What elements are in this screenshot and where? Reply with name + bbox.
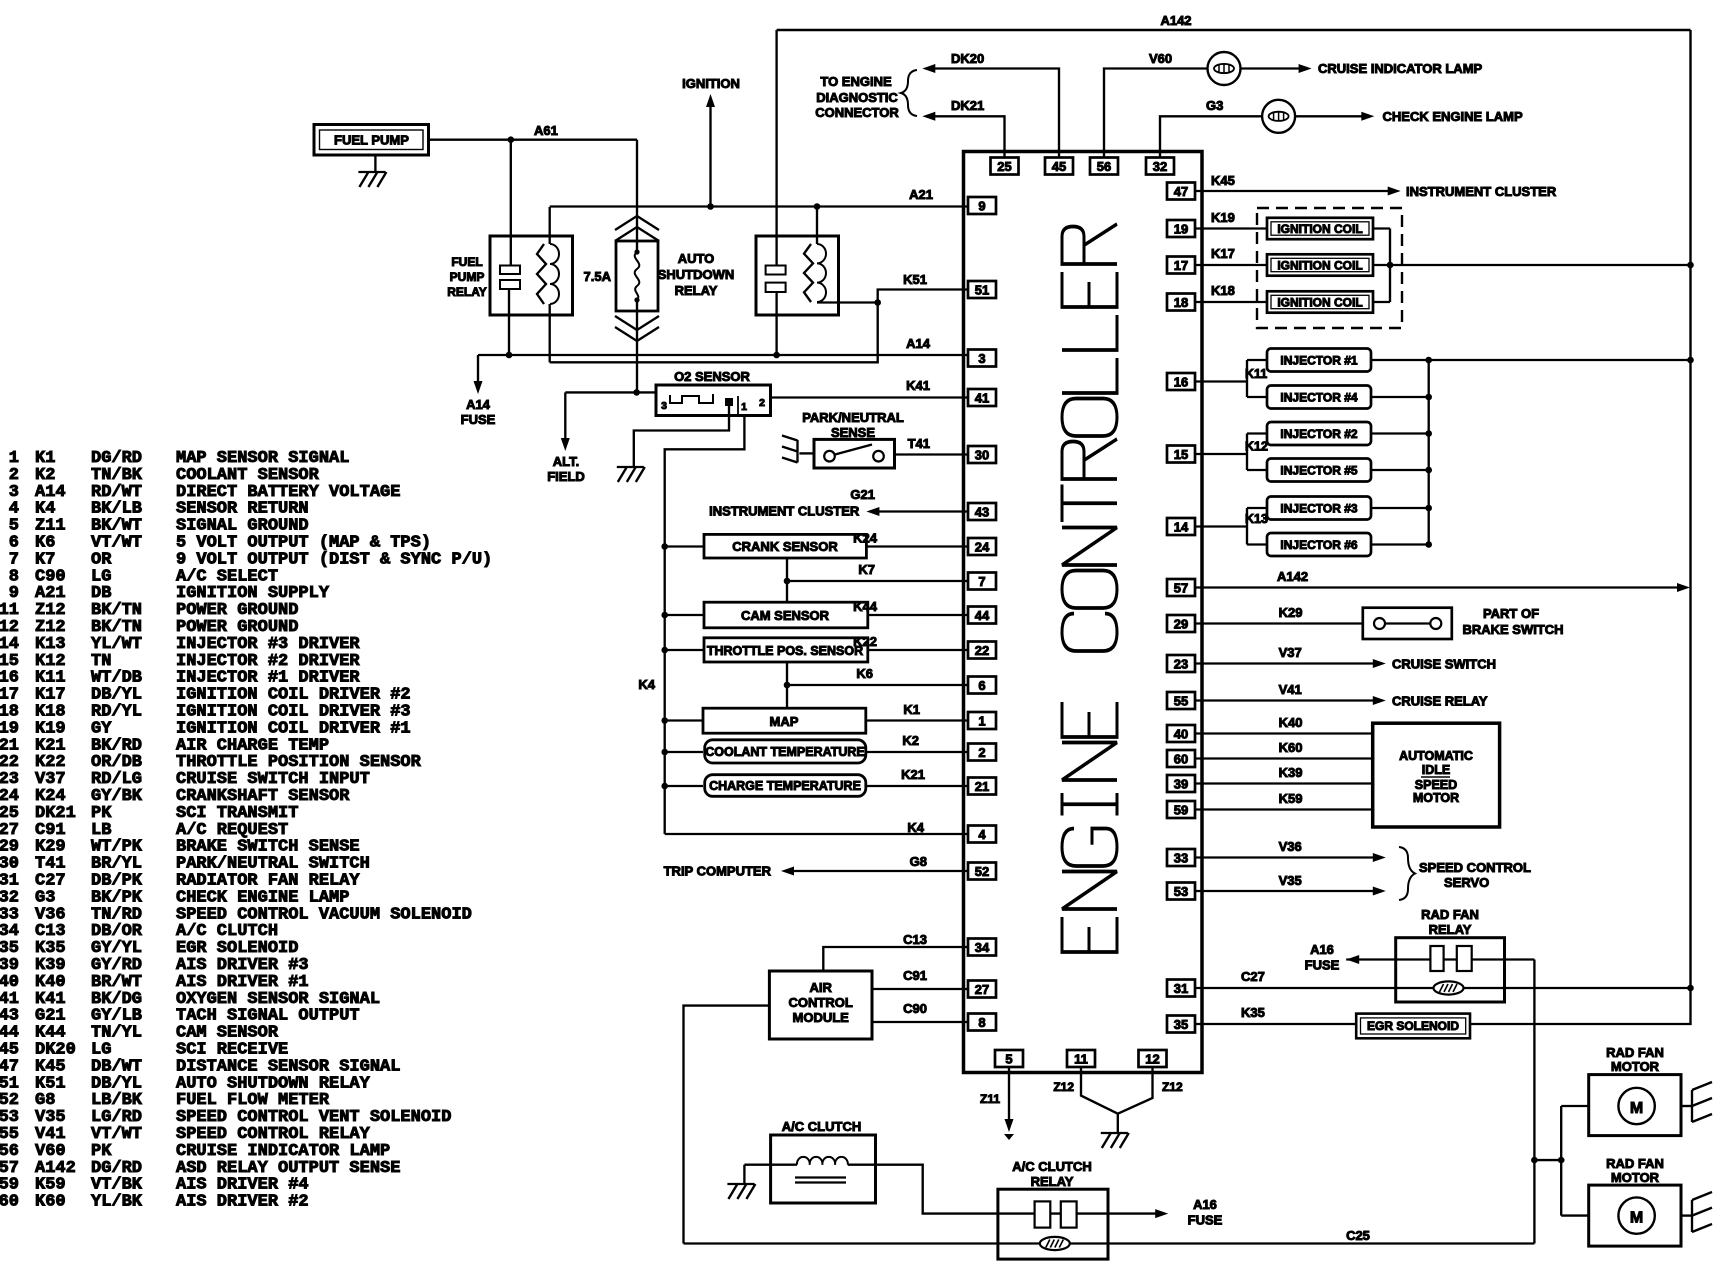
wire K17 pin 17 to coil 2 [1195, 264, 1267, 266]
svg-text:44: 44 [975, 608, 990, 623]
svg-text:CONNECTOR: CONNECTOR [815, 105, 899, 120]
svg-text:2: 2 [978, 745, 985, 760]
brace (speed control servo) [1399, 847, 1415, 900]
svg-text:DIAGNOSTIC: DIAGNOSTIC [816, 90, 898, 105]
svg-text:A/C CLUTCH: A/C CLUTCH [782, 1119, 861, 1134]
wire ASD relay coil top to A21 [816, 207, 818, 245]
svg-text:PUMP: PUMP [450, 270, 485, 284]
svg-text:55: 55 [1174, 693, 1188, 708]
node K51 riser / ASD coil [874, 299, 881, 306]
svg-text:THROTTLE POS. SENSOR: THROTTLE POS. SENSOR [707, 644, 863, 658]
svg-text:FIELD: FIELD [547, 469, 585, 484]
svg-text:K4: K4 [638, 677, 655, 692]
svg-text:27: 27 [975, 982, 989, 997]
svg-text:AIS DRIVER #2: AIS DRIVER #2 [176, 1193, 309, 1212]
pin 51 (left) [968, 281, 996, 298]
wire fuel pump relay contact to A14 line [508, 289, 510, 355]
svg-text:PART OF: PART OF [1483, 606, 1539, 621]
node fuse/O2 heater [633, 389, 640, 396]
engine controller U1 box [964, 152, 1203, 1073]
wire C25 line through A/C relay coil [684, 1242, 1535, 1244]
wire K13 pin 14 to injectors 3/6 [1195, 525, 1247, 527]
node A21/ignition riser [707, 203, 714, 210]
svg-text:K18: K18 [1211, 283, 1235, 298]
pin 60 (right) [1167, 750, 1195, 767]
svg-text:FUSE: FUSE [1305, 958, 1340, 973]
pin 43 (left) [968, 503, 996, 520]
svg-text:ALT.: ALT. [553, 454, 579, 469]
wire K39 to AIS [1195, 782, 1373, 784]
connector prongs (motor 1) [1691, 1090, 1693, 1122]
svg-text:A61: A61 [534, 123, 558, 138]
svg-text:IGNITION COIL: IGNITION COIL [1277, 222, 1362, 236]
svg-text:60: 60 [0, 1193, 19, 1212]
svg-text:14: 14 [1174, 519, 1189, 534]
wire A142 right-edge riser [1689, 30, 1691, 988]
svg-text:K4: K4 [907, 820, 924, 835]
cam sensor box [704, 602, 868, 628]
wire K29 to brake switch [1195, 622, 1363, 624]
svg-text:CRANK SENSOR: CRANK SENSOR [732, 539, 838, 554]
pin 15 (right) [1167, 446, 1195, 463]
pin 41 (left) [968, 389, 996, 406]
svg-text:16: 16 [1174, 374, 1188, 389]
K4 bus stubs to sensor boxes [665, 545, 704, 547]
svg-text:31: 31 [1174, 981, 1188, 996]
svg-text:INSTRUMENT CLUSTER: INSTRUMENT CLUSTER [709, 504, 860, 519]
svg-text:C90: C90 [903, 1001, 927, 1016]
svg-text:FUEL: FUEL [451, 255, 482, 269]
wire T41 to pin 30 [895, 453, 969, 455]
svg-text:Z12: Z12 [1162, 1080, 1183, 1094]
wire K51 pin 51 to relays [550, 290, 968, 363]
svg-text:24: 24 [975, 539, 990, 554]
svg-text:53: 53 [1174, 884, 1188, 899]
pin 52 (left) [968, 863, 996, 880]
engine controller vertical title text [1062, 224, 1117, 952]
svg-text:K39: K39 [1279, 765, 1303, 780]
fuel pump box [314, 125, 429, 156]
svg-text:A16: A16 [1310, 942, 1334, 957]
pin 59 (right) [1167, 801, 1195, 818]
svg-text:DK20: DK20 [951, 51, 984, 66]
svg-text:INJECTOR #2: INJECTOR #2 [1280, 427, 1357, 441]
wire ASD relay coil bottom to K51 riser [817, 301, 878, 303]
wire rad fan relay contact line [1346, 958, 1534, 960]
svg-text:V60: V60 [1149, 51, 1172, 66]
wire K6 to pin 6 [787, 684, 968, 686]
svg-text:K60: K60 [1279, 740, 1303, 755]
svg-text:RAD FAN: RAD FAN [1606, 1045, 1664, 1060]
wire C90 to pin 8 [872, 1021, 968, 1023]
svg-text:G3: G3 [1206, 98, 1223, 113]
svg-text:K35: K35 [1241, 1005, 1265, 1020]
svg-text:RELAY: RELAY [447, 285, 487, 299]
connector prongs (motor 2) [1691, 1200, 1693, 1232]
svg-text:9: 9 [978, 198, 985, 213]
node A14/ASD relay contact [773, 352, 780, 359]
svg-text:7: 7 [978, 574, 985, 589]
pin 34 (left) [968, 939, 996, 956]
svg-text:56: 56 [1097, 159, 1111, 174]
wire ignition coil outputs bus [1373, 227, 1390, 229]
injector box INJECTOR #6 [1267, 533, 1371, 556]
wire A61 drop into fuse [636, 140, 638, 252]
svg-text:19: 19 [1174, 221, 1188, 236]
injector box INJECTOR #5 [1267, 459, 1371, 482]
svg-text:K11: K11 [1245, 367, 1267, 381]
injector box INJECTOR #2 [1267, 422, 1371, 445]
pin 53 (right) [1167, 883, 1195, 900]
wire K1 to pin 1 [866, 719, 968, 721]
svg-text:RAD FAN: RAD FAN [1421, 907, 1479, 922]
svg-text:3: 3 [978, 351, 985, 366]
svg-text:22: 22 [975, 643, 989, 658]
svg-text:CHARGE TEMPERATURE: CHARGE TEMPERATURE [709, 779, 861, 793]
fuse F1 7.5A [615, 216, 659, 230]
svg-text:1: 1 [978, 713, 985, 728]
svg-text:2: 2 [759, 397, 765, 409]
svg-text:K51: K51 [903, 272, 927, 287]
pin 47 (right) [1167, 183, 1195, 200]
svg-text:V35: V35 [1279, 873, 1302, 888]
node A61/fuel-pump-relay junction [508, 136, 515, 143]
svg-text:DK21: DK21 [951, 98, 984, 113]
svg-text:V36: V36 [1279, 839, 1302, 854]
automatic idle speed motor box [1373, 723, 1500, 827]
wire K59 to AIS [1195, 808, 1373, 810]
wire fuse output down to O2 heater line [636, 300, 638, 392]
svg-text:SENSE: SENSE [831, 425, 875, 440]
svg-text:IGNITION COIL: IGNITION COIL [1277, 296, 1362, 310]
pin 14 (right) [1167, 518, 1195, 535]
wire Z12 pin 12 to ground [1118, 1068, 1153, 1114]
svg-text:INJECTOR #4: INJECTOR #4 [1280, 391, 1357, 405]
relay: fuel pump relay [490, 236, 573, 315]
wire G3 to check engine lamp [1160, 116, 1262, 157]
wire Z11 pin 5 to ground [1008, 1068, 1010, 1122]
svg-text:MAP: MAP [770, 714, 799, 729]
EGR solenoid box [1356, 1014, 1470, 1039]
ignition coil group dashed box [1257, 208, 1402, 328]
svg-text:MOTOR: MOTOR [1611, 1170, 1660, 1185]
svg-text:K7: K7 [858, 562, 875, 577]
pin 27 (left) [968, 981, 996, 998]
svg-text:RAD FAN: RAD FAN [1606, 1156, 1664, 1171]
svg-text:SHUTDOWN: SHUTDOWN [658, 267, 735, 282]
pin 12 (bottom) [1139, 1050, 1167, 1067]
throttle position sensor box [704, 638, 868, 662]
wire K40 to AIS [1195, 732, 1373, 734]
node motors riser [1531, 1157, 1538, 1164]
svg-text:MOTOR: MOTOR [1611, 1059, 1660, 1074]
wire C91 to pin 27 [872, 988, 968, 990]
wire A61 fuel pump to fuse [429, 139, 638, 141]
wire motor bus [1560, 1106, 1562, 1216]
svg-text:INJECTOR #6: INJECTOR #6 [1280, 538, 1357, 552]
svg-text:CAM SENSOR: CAM SENSOR [741, 608, 830, 623]
svg-text:K40: K40 [1279, 715, 1303, 730]
svg-text:8: 8 [978, 1015, 985, 1030]
pin 9 (left) [968, 197, 996, 214]
svg-text:23: 23 [1174, 656, 1188, 671]
wire K24 to pin 24 [866, 545, 968, 547]
wire ACM left lead down to C25 line [684, 1006, 770, 1244]
pin 33 (right) [1167, 849, 1195, 866]
svg-text:INJECTOR #5: INJECTOR #5 [1280, 464, 1357, 478]
svg-text:33: 33 [1174, 850, 1188, 865]
svg-text:SPEED CONTROL: SPEED CONTROL [1419, 860, 1531, 875]
svg-text:AUTO: AUTO [678, 251, 715, 266]
svg-text:C27: C27 [1241, 969, 1265, 984]
node A14/fuel pump relay contact [506, 352, 513, 359]
svg-text:1: 1 [741, 401, 747, 413]
pin 57 (right) [1167, 579, 1195, 596]
svg-text:57: 57 [1174, 580, 1188, 595]
svg-text:INSTRUMENT CLUSTER: INSTRUMENT CLUSTER [1406, 184, 1557, 199]
svg-text:51: 51 [975, 282, 989, 297]
svg-text:BRAKE SWITCH: BRAKE SWITCH [1462, 622, 1563, 637]
svg-text:A14: A14 [906, 336, 931, 351]
wire ASD relay contact riser to A142 top line [775, 30, 777, 266]
pin 4 (left) [968, 826, 996, 843]
wire G21 tach output to instrument cluster [873, 510, 968, 512]
pin 56 (top) [1090, 158, 1118, 175]
svg-text:K1: K1 [903, 702, 920, 717]
ground (Z12) [1117, 1114, 1119, 1132]
wire fuel pump relay coil bottom to K51 line [549, 304, 551, 362]
svg-text:41: 41 [975, 390, 989, 405]
pin 45 (top) [1045, 158, 1073, 175]
svg-text:40: 40 [1174, 726, 1188, 741]
wire lamp to arrow [1295, 115, 1363, 117]
svg-text:7.5A: 7.5A [584, 269, 612, 284]
wire K7 crank/cam riser [786, 558, 788, 602]
pin 22 (left) [968, 642, 996, 659]
wire DK20 to diagnostic connector [935, 69, 1059, 158]
pin 16 (right) [1167, 373, 1195, 390]
svg-text:60: 60 [1174, 751, 1188, 766]
wire K4 from O2 pin 1 down left bus [665, 416, 745, 835]
svg-text:EGR SOLENOID: EGR SOLENOID [1367, 1019, 1459, 1033]
ground (A/C clutch) [727, 1183, 754, 1185]
svg-text:C91: C91 [903, 968, 927, 983]
svg-text:5: 5 [1005, 1051, 1012, 1066]
svg-text:11: 11 [1074, 1051, 1088, 1066]
pin 5 (bottom) [995, 1050, 1023, 1067]
svg-text:AIR: AIR [810, 980, 833, 995]
wire A/C clutch to relay contact [876, 1165, 998, 1214]
svg-text:MODULE: MODULE [793, 1010, 850, 1025]
svg-text:RELAY: RELAY [1429, 922, 1472, 937]
MAP sensor box [703, 708, 866, 733]
svg-text:29: 29 [1174, 616, 1188, 631]
svg-text:CONTROL: CONTROL [789, 995, 853, 1010]
svg-text:RELAY: RELAY [1031, 1174, 1074, 1189]
svg-text:CRUISE SWITCH: CRUISE SWITCH [1392, 657, 1496, 672]
wire K2 to pin 2 [866, 751, 968, 753]
svg-text:K6: K6 [856, 666, 873, 681]
wire K35 to EGR solenoid [1195, 1023, 1356, 1025]
injector box INJECTOR #1 [1267, 349, 1371, 372]
svg-text:IGNITION: IGNITION [682, 76, 740, 91]
svg-text:G21: G21 [850, 487, 875, 502]
svg-text:SERVO: SERVO [1444, 875, 1489, 890]
pin 11 (bottom) [1067, 1050, 1095, 1067]
svg-text:C13: C13 [903, 932, 927, 947]
wire K7 to pin 7 [787, 580, 968, 582]
svg-text:AUTOMATIC: AUTOMATIC [1399, 749, 1473, 763]
svg-text:15: 15 [1174, 447, 1188, 462]
part of brake switch box [1363, 608, 1452, 639]
svg-text:COOLANT TEMPERATURE: COOLANT TEMPERATURE [705, 745, 865, 759]
svg-text:25: 25 [997, 159, 1011, 174]
wire C27 pin 31 through relay coil [1195, 987, 1691, 989]
svg-text:K17: K17 [1211, 246, 1235, 261]
wire A14 to fuse arrow [477, 355, 479, 382]
wire V60 to cruise lamp [1104, 69, 1208, 158]
wire K12 pin 15 to injectors 2/5 [1195, 453, 1247, 455]
pin 17 (right) [1167, 257, 1195, 274]
svg-text:K22: K22 [853, 634, 877, 649]
svg-text:CHECK ENGINE LAMP: CHECK ENGINE LAMP [1383, 109, 1523, 124]
wire K22 to pin 22 [868, 649, 968, 651]
pin 6 (left) [968, 677, 996, 694]
svg-text:45: 45 [1052, 159, 1066, 174]
svg-text:K59: K59 [1279, 791, 1303, 806]
svg-text:FUEL PUMP: FUEL PUMP [334, 133, 409, 148]
svg-text:INJECTOR #3: INJECTOR #3 [1280, 502, 1357, 516]
svg-text:FUSE: FUSE [1188, 1213, 1223, 1228]
wire DK21 to diagnostic connector [935, 116, 1005, 157]
pin 40 (right) [1167, 725, 1195, 742]
svg-text:K29: K29 [1279, 605, 1303, 620]
wire K41 O2 to pin 41 [771, 396, 969, 398]
wire A14 battery line to pin 3 [478, 354, 968, 356]
wire K60 to AIS [1195, 757, 1373, 759]
svg-text:K19: K19 [1211, 210, 1235, 225]
svg-text:SPEED: SPEED [1415, 778, 1457, 792]
svg-text:K13: K13 [1245, 512, 1268, 526]
svg-text:PARK/NEUTRAL: PARK/NEUTRAL [802, 410, 904, 425]
svg-text:TRIP COMPUTER: TRIP COMPUTER [664, 864, 772, 879]
svg-text:Z11: Z11 [980, 1092, 1000, 1106]
svg-text:35: 35 [1174, 1017, 1188, 1032]
wire V37 to cruise switch [1195, 662, 1374, 664]
IGNITION feed arrow [709, 104, 711, 207]
svg-text:18: 18 [1174, 295, 1188, 310]
svg-text:MOTOR: MOTOR [1413, 791, 1459, 805]
pin 7 (left) [968, 573, 996, 590]
svg-text:K45: K45 [1211, 173, 1235, 188]
coolant temperature box [705, 740, 866, 763]
connector prongs (park/neutral) [796, 440, 798, 463]
svg-text:INJECTOR #1: INJECTOR #1 [1280, 354, 1357, 368]
svg-text:T41: T41 [908, 436, 930, 451]
wire coil output to right-edge A142 riser [1373, 264, 1691, 266]
wire injector 1 line to right-edge A142 riser [1371, 359, 1691, 361]
pin 19 (right) [1167, 220, 1195, 237]
svg-text:A21: A21 [909, 187, 933, 202]
brace (diagnostic connector) [901, 70, 917, 116]
ignition coil 2 [1267, 254, 1373, 275]
svg-text:RELAY: RELAY [675, 283, 718, 298]
svg-text:IDLE: IDLE [1422, 763, 1450, 777]
svg-text:A142: A142 [1160, 13, 1191, 28]
node A21/ASD coil riser [814, 203, 821, 210]
pin 35 (right) [1167, 1016, 1195, 1033]
pin 25 (top) [991, 158, 1019, 175]
A/C clutch relay coil oval [1040, 1237, 1070, 1250]
wire K6 TPS/MAP riser [786, 662, 788, 708]
svg-text:21: 21 [975, 779, 989, 794]
svg-text:K2: K2 [902, 733, 919, 748]
wire K21 to pin 21 [866, 785, 968, 787]
pin 1 (left) [968, 712, 996, 729]
wire A21 bus to pin 9 [550, 205, 968, 207]
ignition coil 3 [1267, 291, 1373, 312]
pin 18 (right) [1167, 294, 1195, 311]
wire A/C relay contact to A16 fuse [998, 1212, 1157, 1214]
wire A142 top line [777, 29, 1691, 31]
svg-text:K21: K21 [901, 767, 925, 782]
svg-text:59: 59 [1174, 802, 1188, 817]
wire A/C clutch left to ground [744, 1164, 770, 1166]
pin 8 (left) [968, 1014, 996, 1031]
pin 2 (left) [968, 744, 996, 761]
pin 24 (left) [968, 538, 996, 555]
K4 bus junction dots [661, 543, 668, 550]
svg-text:V37: V37 [1279, 645, 1302, 660]
wire ALT. FIELD drop [564, 392, 566, 440]
svg-text:12: 12 [1145, 1051, 1159, 1066]
wire K44 to pin 44 [868, 614, 968, 616]
svg-text:34: 34 [975, 940, 990, 955]
svg-text:K12: K12 [1245, 440, 1268, 454]
svg-text:M: M [1630, 1210, 1643, 1227]
svg-text:V41: V41 [1279, 682, 1302, 697]
rad fan relay coil oval [1434, 981, 1464, 994]
charge temperature box [705, 775, 866, 797]
wire fuel pump relay coil top to A21 bus [549, 207, 551, 244]
svg-text:39: 39 [1174, 776, 1188, 791]
injector box INJECTOR #3 [1267, 497, 1371, 520]
wire relay contact to motors riser [1533, 960, 1535, 1244]
svg-text:FUSE: FUSE [461, 412, 496, 427]
pin 55 (right) [1167, 692, 1195, 709]
wire A61 drop to fuel pump relay contact [510, 140, 512, 266]
pin 32 (top) [1146, 158, 1174, 175]
svg-text:A/C CLUTCH: A/C CLUTCH [1012, 1159, 1091, 1174]
wire V35 to speed control servo [1195, 890, 1374, 892]
wire lamp to arrow [1241, 67, 1301, 69]
pin 3 (left) [968, 350, 996, 367]
wire O2 pin 4 to ground [634, 404, 729, 466]
svg-text:K24: K24 [853, 531, 878, 546]
ground (fuel pump) [374, 155, 376, 171]
pin 23 (right) [1167, 655, 1195, 672]
svg-text:32: 32 [1153, 159, 1167, 174]
lamp: cruise indicator [1208, 52, 1241, 85]
svg-text:CRUISE RELAY: CRUISE RELAY [1392, 694, 1488, 709]
svg-text:A142: A142 [1277, 569, 1308, 584]
svg-text:Z12: Z12 [1053, 1080, 1074, 1094]
svg-text:17: 17 [1174, 258, 1188, 273]
relay: auto shutdown relay [756, 236, 839, 315]
pin 30 (left) [968, 446, 996, 463]
lamp: check engine [1262, 100, 1295, 133]
wire Z12 pin 11 to ground [1081, 1068, 1118, 1114]
